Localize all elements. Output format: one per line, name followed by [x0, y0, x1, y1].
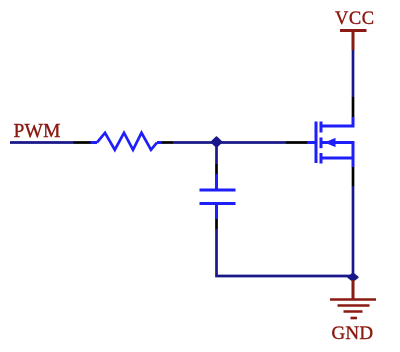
svg-text:PWM: PWM	[14, 121, 61, 142]
svg-text:GND: GND	[332, 323, 374, 344]
svg-text:VCC: VCC	[335, 9, 375, 29]
